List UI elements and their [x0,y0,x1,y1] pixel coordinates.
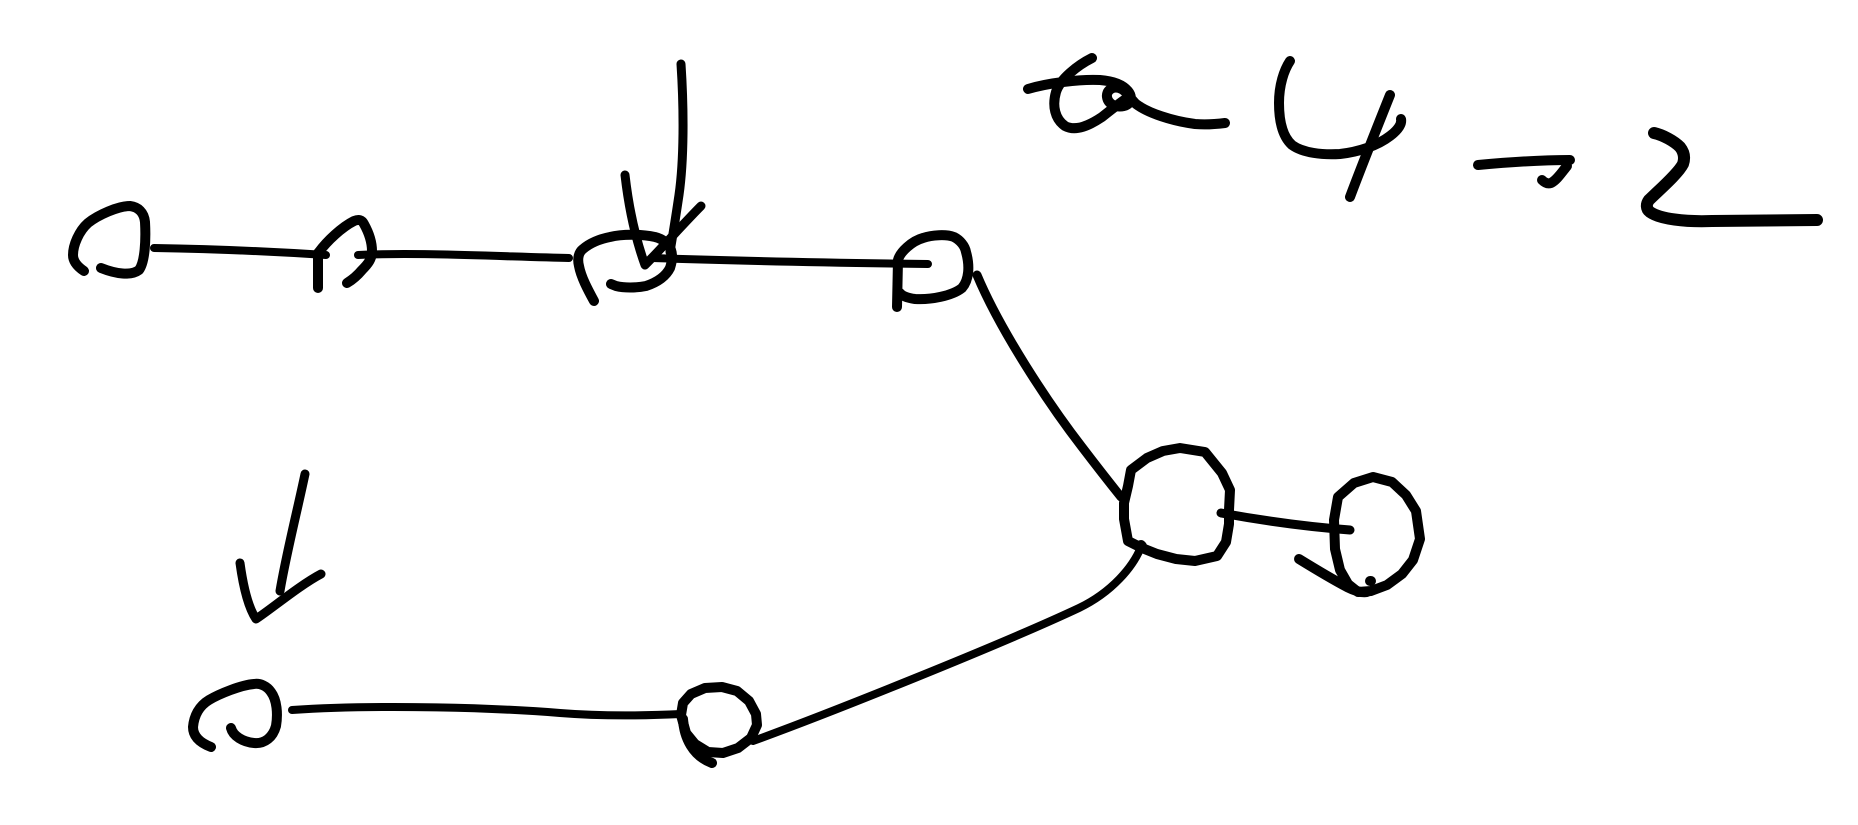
arrow 1 head [625,175,701,265]
arrow check [1542,166,1567,183]
wire B-C [358,254,569,258]
wire E-G diagonal [753,547,1141,741]
node H (bottom-left spiral) [193,684,277,747]
wire A-B [154,248,326,255]
wire C-D [652,258,928,264]
node F inner dot [1370,576,1371,586]
node E (big) [1124,448,1230,561]
node G (bottom middle) [681,687,757,753]
node A (top-left) [73,206,145,274]
arrow 2 head [240,563,321,619]
arrow 2 shaft [280,474,305,591]
wire H-G [292,707,681,715]
node F tail [1299,559,1367,592]
node B tick [313,253,323,288]
node B (second top) [319,220,372,283]
node C (third top) [578,235,672,301]
text 4 curve [1279,61,1401,154]
arrow dash [1478,160,1570,165]
node G tail [683,719,712,763]
node E inner dot [1141,545,1142,546]
node D (fourth top) [897,235,968,307]
text t stroke 1 [1054,58,1130,128]
node F (right) [1334,477,1420,592]
text 4 slash [1350,95,1390,197]
text 2 [1647,133,1817,221]
text t stroke 2 (cross, loop and tail) [1028,80,1225,125]
wire E-F [1221,513,1350,530]
arrow 1 shaft [670,64,683,252]
wire D-E diagonal [977,275,1121,497]
